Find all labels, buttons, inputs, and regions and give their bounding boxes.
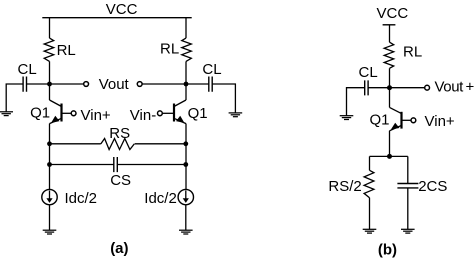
wire RS/2 to ground (b) — [369, 198, 371, 230]
ground (right CL) — [229, 113, 243, 117]
wire VCC to RL (b) — [389, 25, 391, 42]
node RS right — [183, 141, 188, 146]
CS rail right segment — [117, 164, 185, 166]
ground (bottom left) — [43, 230, 57, 234]
wire emitter Q1 (b) down — [389, 131, 391, 157]
node CS right — [183, 162, 188, 167]
resistor RL (b) — [384, 42, 394, 68]
svg-text:CS: CS — [110, 172, 131, 189]
transistor Q1 (b) — [390, 107, 412, 130]
current source Idc/2 (left) — [42, 189, 57, 204]
wire node to Vout+ terminal (b) — [390, 87, 425, 89]
wire RL to node (b) — [389, 68, 391, 87]
svg-text:RL: RL — [160, 40, 179, 57]
node CS left — [47, 162, 52, 167]
CS rail left segment — [50, 164, 114, 166]
svg-text:Vin+: Vin+ — [81, 107, 111, 124]
wire current source right to ground — [185, 205, 187, 230]
wire node to capacitor CL right — [186, 83, 209, 85]
svg-text:Vin+: Vin+ — [425, 113, 455, 130]
svg-text:Vin-: Vin- — [130, 107, 156, 124]
capacitor CL (b) — [365, 80, 368, 95]
terminal Vin+ (b) — [411, 118, 416, 123]
wire RL left to output node — [49, 61, 51, 84]
wire collector Q1 (b) — [389, 88, 391, 108]
node left output — [47, 82, 52, 87]
node RS left — [47, 141, 52, 146]
wire VCC rail to RL right — [185, 18, 187, 38]
node output (b) — [387, 85, 392, 90]
capacitor 2CS (b) — [397, 184, 418, 188]
wire node to capacitor CL left — [27, 83, 50, 85]
wire rail to RS/2 (b) — [369, 156, 371, 170]
svg-text:RL: RL — [403, 43, 422, 60]
wire Vout right terminal to right node — [142, 83, 186, 85]
wire VCC rail to RL left — [49, 18, 51, 38]
svg-text:Q1: Q1 — [30, 104, 50, 121]
svg-text:Vout: Vout — [99, 76, 130, 93]
resistor RS — [101, 139, 135, 150]
RS rail right segment — [135, 143, 186, 145]
terminal Vout left — [84, 82, 89, 87]
svg-text:Q1: Q1 — [188, 105, 208, 122]
svg-text:Idc/2: Idc/2 — [65, 190, 98, 207]
wire 2CS to ground (b) — [407, 188, 409, 229]
wire CL right to ground — [212, 84, 235, 113]
wire CL left to ground — [6, 84, 23, 112]
resistor RS/2 (b) — [364, 170, 374, 197]
RS rail left segment — [50, 143, 101, 145]
ground (left CL) — [0, 112, 13, 116]
svg-text:CL: CL — [202, 61, 221, 78]
svg-text:VCC: VCC — [377, 5, 409, 22]
svg-text:+: + — [466, 78, 474, 95]
wire node to capacitor CL (b) — [368, 87, 389, 89]
capacitor CS — [114, 157, 118, 172]
emitter rail (b) — [370, 155, 408, 157]
wire CL to ground (b) — [347, 88, 365, 116]
ground (bottom right a) — [179, 230, 193, 234]
VCC tick (b) — [383, 24, 396, 26]
capacitor CL (left) — [23, 77, 26, 92]
terminal Vout+ (b) — [425, 85, 430, 90]
transistor Q1 (right) — [162, 100, 186, 124]
current source Idc/2 (right) — [178, 189, 193, 204]
ground (2CS b) — [401, 229, 415, 233]
resistor RL (left) — [44, 38, 54, 61]
svg-text:2CS: 2CS — [418, 178, 447, 195]
resistor RL (right) — [182, 38, 192, 61]
terminal Vin- (a) — [158, 111, 163, 116]
svg-text:CL: CL — [359, 64, 378, 81]
svg-text:Idc/2: Idc/2 — [144, 190, 177, 207]
node emitter (b) — [387, 154, 392, 159]
node right output — [184, 82, 189, 87]
svg-text:RL: RL — [57, 42, 76, 59]
wire collector Q1 right — [185, 84, 187, 100]
terminal Vin+ (a) — [71, 111, 76, 116]
wire collector Q1 left — [49, 84, 51, 100]
svg-text:Vout: Vout — [435, 78, 465, 95]
wire current source left to ground — [49, 205, 51, 230]
svg-text:RS/2: RS/2 — [328, 178, 361, 195]
wire node to Vout terminal left — [50, 83, 84, 85]
svg-text:(a): (a) — [110, 240, 128, 257]
svg-text:Q1: Q1 — [370, 112, 390, 129]
terminal Vout right — [137, 82, 142, 87]
transistor Q1 (left) — [50, 100, 72, 124]
VCC rail — [42, 17, 191, 19]
ground (CL b) — [340, 116, 354, 120]
capacitor CL (right) — [209, 77, 212, 92]
svg-text:VCC: VCC — [106, 1, 138, 18]
wire emitter Q1 right down — [185, 124, 187, 190]
svg-text:(b): (b) — [378, 242, 397, 258]
wire rail to 2CS (b) — [407, 156, 409, 183]
ground (RS/2 b) — [363, 229, 377, 233]
svg-text:RS: RS — [109, 125, 130, 142]
wire RL right to output node — [185, 61, 187, 84]
svg-text:CL: CL — [18, 61, 37, 78]
wire emitter Q1 left down — [49, 124, 51, 190]
